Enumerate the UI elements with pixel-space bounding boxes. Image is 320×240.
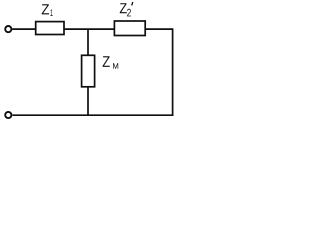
wire right side vertical — [172, 28, 174, 116]
resistor Z1 — [36, 22, 64, 35]
wire bottom — [12, 114, 173, 116]
wire Z2' to right corner — [145, 28, 172, 30]
resistor Z2' — [114, 21, 145, 36]
resistor ZM — [82, 55, 95, 87]
label ZM — [103, 56, 119, 68]
wire terminal to Z1 — [12, 28, 36, 30]
terminal top-left — [5, 26, 11, 32]
wire Z1 to Z2' — [64, 28, 114, 30]
wire top junction down to ZM — [87, 29, 89, 56]
wire ZM to bottom junction — [87, 87, 89, 117]
label Z2' — [120, 2, 133, 17]
label Z1 — [42, 4, 53, 16]
terminal bottom-left — [5, 112, 11, 118]
